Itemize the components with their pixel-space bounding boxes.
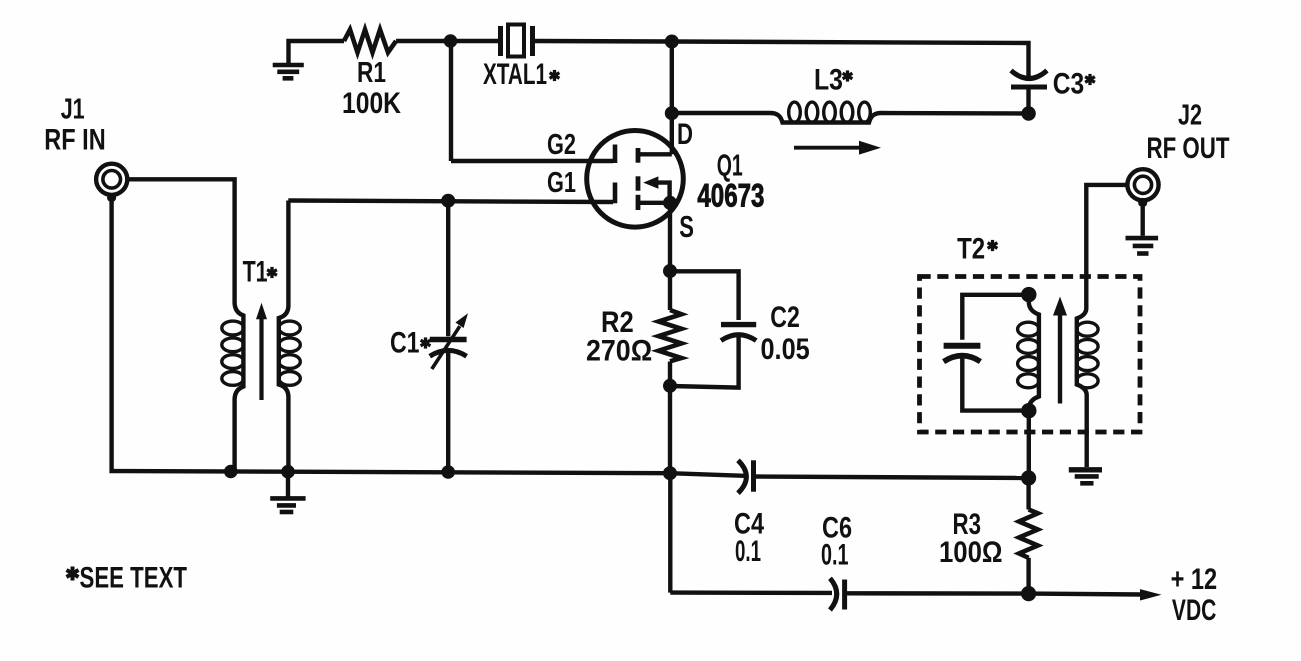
svg-text:J1: J1 bbox=[61, 93, 85, 125]
svg-text:XTAL1: XTAL1 bbox=[483, 58, 547, 91]
svg-text:0.1: 0.1 bbox=[735, 535, 761, 568]
svg-text:T1: T1 bbox=[243, 256, 268, 289]
svg-text:RF IN: RF IN bbox=[44, 123, 105, 156]
svg-text:G2: G2 bbox=[547, 129, 576, 161]
svg-text:L3: L3 bbox=[814, 63, 843, 96]
svg-text:RF OUT: RF OUT bbox=[1147, 132, 1230, 165]
svg-text:C2: C2 bbox=[770, 301, 800, 334]
svg-text:VDC: VDC bbox=[1172, 594, 1217, 627]
svg-text:J2: J2 bbox=[1178, 100, 1202, 132]
svg-text:40673: 40673 bbox=[697, 177, 764, 213]
svg-text:R1: R1 bbox=[357, 57, 386, 89]
svg-text:C3: C3 bbox=[1053, 67, 1085, 100]
svg-text:100Ω: 100Ω bbox=[939, 536, 1003, 569]
svg-text:0.1: 0.1 bbox=[821, 539, 849, 572]
svg-text:100K: 100K bbox=[342, 87, 401, 120]
svg-text:S: S bbox=[679, 209, 694, 244]
svg-text:SEE TEXT: SEE TEXT bbox=[80, 562, 188, 595]
svg-text:D: D bbox=[677, 118, 693, 151]
svg-text:+ 12: + 12 bbox=[1171, 563, 1218, 596]
svg-text:G1: G1 bbox=[547, 167, 576, 199]
svg-text:C1: C1 bbox=[390, 326, 420, 359]
svg-text:T2: T2 bbox=[957, 232, 985, 265]
svg-text:270Ω: 270Ω bbox=[586, 334, 652, 367]
svg-text:0.05: 0.05 bbox=[761, 333, 810, 366]
